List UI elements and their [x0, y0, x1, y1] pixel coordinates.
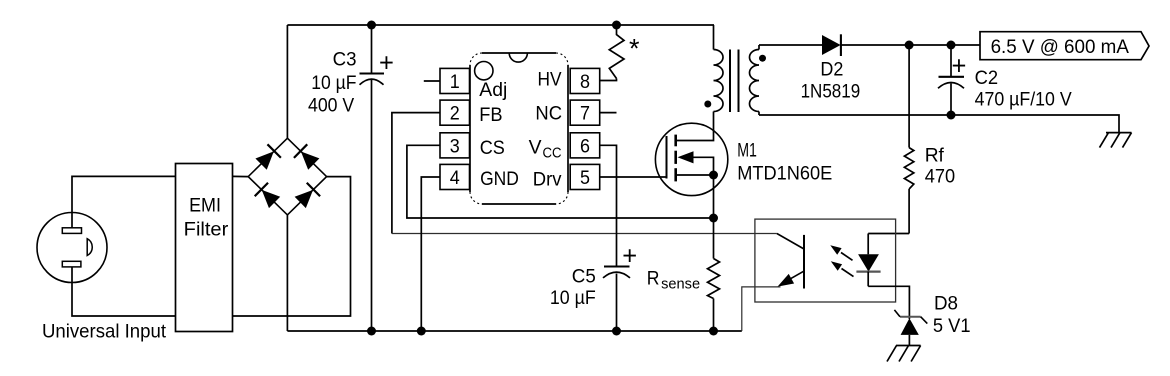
wire pin 6 Vcc to C5: [600, 145, 617, 265]
pin 8 box: [570, 68, 600, 93]
wire pin 7 NC stub: [600, 112, 617, 114]
svg-text:8: 8: [580, 71, 590, 93]
wire LED cathode to zener D8: [868, 286, 909, 319]
node C2 / output return: [947, 111, 956, 120]
svg-text:400 V: 400 V: [308, 94, 354, 116]
wire pin 2 FB to feedback line: [392, 113, 440, 234]
MOSFET M1: [655, 112, 727, 219]
wire plug top to EMI filter: [72, 176, 176, 227]
pin 3 box: [440, 133, 470, 158]
IC pin name labels: [479, 69, 562, 191]
wire top rail (HV DC bus): [287, 24, 714, 26]
svg-text:6.5 V @ 600 mA: 6.5 V @ 600 mA: [991, 36, 1129, 58]
svg-text:FB: FB: [479, 104, 502, 126]
svg-text:10 µF: 10 µF: [311, 72, 356, 94]
svg-text:C5: C5: [572, 266, 596, 288]
svg-text:+: +: [379, 49, 394, 77]
wire bottom rail (primary ground): [287, 330, 741, 332]
svg-text:Universal Input: Universal Input: [42, 321, 167, 343]
zener diode D8: [894, 310, 927, 346]
capacitor C3: [360, 25, 385, 331]
svg-text:*: *: [629, 34, 640, 64]
node C3 / bottom rail: [367, 327, 376, 336]
wire pin 8 to startup resistor: [600, 79, 617, 81]
wire secondary top to D2: [759, 44, 822, 46]
IC U1 body (8-pin controller): [470, 53, 568, 204]
optocoupler phototransistor: [777, 234, 804, 289]
svg-text:5 V1: 5 V1: [933, 315, 971, 337]
AC plug (Universal Input connector): [37, 213, 107, 283]
pin 7 box: [570, 100, 600, 125]
node top rail / C3: [367, 21, 376, 30]
transformer T1 core: [730, 50, 739, 113]
pin 6 box: [570, 133, 600, 158]
diode D2: [822, 34, 841, 56]
wire optocoupler emitter to bottom rail: [742, 287, 781, 331]
bridge diode (bottom-left edge): [255, 183, 282, 210]
optocoupler box: [755, 219, 896, 302]
pin 5 box: [570, 164, 600, 189]
transformer T1 primary winding: [714, 25, 724, 112]
optocoupler light arrows: [830, 245, 853, 276]
wire pin 5 Drv to MOSFET gate: [600, 176, 667, 178]
svg-text:Rf: Rf: [925, 145, 945, 167]
capacitor C2: [938, 45, 964, 115]
svg-text:EMI: EMI: [189, 194, 221, 216]
output flag 6.5 V @ 600 mA: [980, 32, 1149, 60]
svg-text:NC: NC: [535, 103, 562, 125]
wire feedback line FB to optocoupler collector: [392, 233, 777, 235]
transformer T1 secondary winding: [750, 45, 760, 115]
wire plug bottom to EMI filter: [72, 267, 176, 316]
svg-text:Adj: Adj: [479, 79, 507, 101]
pin 2 box: [440, 100, 470, 125]
resistor Rsense: [708, 218, 720, 331]
svg-text:MTD1N60E: MTD1N60E: [737, 163, 832, 185]
wire EMI filter to bridge left vertex: [233, 175, 249, 177]
bridge rectifier diamond outline: [248, 138, 326, 215]
svg-text:4: 4: [450, 167, 460, 189]
bridge diode (top-left edge): [254, 144, 281, 171]
svg-text:C2: C2: [975, 67, 999, 89]
wire Rf to optocoupler LED anode: [868, 233, 909, 235]
svg-text:sense: sense: [661, 277, 700, 293]
svg-text:Filter: Filter: [184, 219, 229, 241]
svg-text:CS: CS: [480, 137, 505, 159]
svg-text:470: 470: [925, 165, 956, 187]
svg-text:1: 1: [450, 71, 460, 93]
phase dot primary: [704, 101, 711, 108]
svg-text:Drv: Drv: [533, 169, 562, 191]
wire bridge bottom vertex to bottom rail: [286, 215, 288, 331]
ground (output chassis): [1100, 133, 1132, 148]
svg-text:GND: GND: [480, 168, 519, 190]
svg-text:+: +: [952, 52, 967, 80]
svg-text:HV: HV: [538, 69, 562, 91]
bridge diode (top-right edge): [294, 144, 321, 171]
resistor Rf: [904, 45, 913, 234]
wire secondary bottom / output return: [759, 115, 1119, 133]
node Rsense / bottom rail: [709, 327, 718, 336]
wire pin 1 stub: [424, 80, 440, 82]
svg-text:7: 7: [580, 103, 590, 125]
capacitor C5: [603, 267, 630, 332]
wire pin 3 CS to current sense node: [407, 145, 714, 218]
node output / Rf: [905, 41, 914, 50]
resistor * (startup, unlabeled value): [609, 25, 624, 79]
svg-text:CC: CC: [543, 146, 562, 162]
node GND / bottom rail: [417, 327, 426, 336]
pin 4 box: [440, 164, 470, 189]
svg-text:2: 2: [450, 103, 460, 125]
node C5 / bottom rail: [612, 327, 621, 336]
optocoupler LED: [856, 234, 880, 287]
svg-text:+: +: [622, 243, 637, 271]
svg-text:R: R: [647, 267, 660, 289]
svg-text:470 µF/10 V: 470 µF/10 V: [975, 89, 1072, 111]
node output / C2: [947, 41, 956, 50]
svg-text:D8: D8: [934, 293, 958, 315]
wire bridge top vertex to top rail: [286, 25, 288, 138]
node top rail / snubber resistor: [612, 21, 621, 30]
svg-text:C3: C3: [333, 49, 357, 71]
svg-text:M1: M1: [737, 140, 757, 162]
pin 1 box: [440, 68, 470, 93]
ground (D8 chassis): [887, 346, 921, 362]
svg-text:D2: D2: [820, 59, 843, 81]
svg-text:5: 5: [580, 167, 590, 189]
wire D2 to output: [841, 44, 980, 46]
svg-text:3: 3: [450, 135, 460, 157]
svg-text:10 µF: 10 µF: [550, 287, 596, 309]
svg-text:6: 6: [580, 135, 590, 157]
bridge diode (bottom-right edge): [294, 183, 321, 210]
EMI filter box: [176, 164, 233, 332]
node CS / MOSFET source: [709, 214, 718, 223]
wire EMI filter bottom to bridge right vertex: [233, 177, 351, 316]
phase dot secondary: [759, 55, 766, 62]
wire pin 4 GND to bottom rail: [421, 177, 440, 331]
svg-text:1N5819: 1N5819: [801, 81, 861, 103]
svg-text:V: V: [529, 137, 542, 159]
